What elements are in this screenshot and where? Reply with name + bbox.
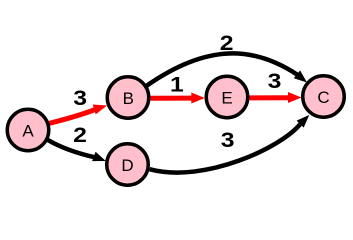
svg-text:1: 1: [170, 72, 184, 96]
edge E→C (red, weight 3): [250, 92, 302, 103]
svg-text:3: 3: [221, 128, 235, 152]
node E: [206, 76, 248, 118]
node B: [107, 77, 149, 119]
svg-text:A: A: [22, 122, 34, 141]
edge B→C (black curved, weight 2): [147, 53, 307, 85]
svg-text:E: E: [221, 89, 232, 108]
node C: [303, 76, 345, 118]
svg-text:2: 2: [73, 122, 87, 146]
node A: [7, 109, 49, 151]
svg-text:D: D: [121, 156, 133, 175]
node D: [107, 144, 149, 186]
svg-text:B: B: [123, 89, 134, 108]
svg-text:2: 2: [220, 30, 234, 54]
edge A→B (red, weight 3): [47, 105, 107, 124]
svg-text:3: 3: [73, 85, 87, 109]
edge B→E (red, weight 1): [151, 93, 205, 104]
svg-text:3: 3: [268, 69, 282, 93]
svg-text:C: C: [317, 88, 329, 107]
edge A→D (black, weight 2): [47, 140, 106, 161]
edge D→C (black curved, weight 3): [150, 115, 310, 173]
